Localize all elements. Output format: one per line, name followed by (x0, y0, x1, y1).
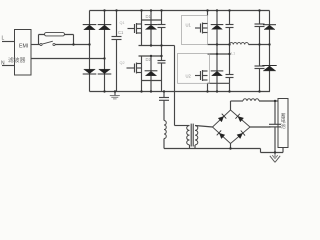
svg-text:EMI: EMI (19, 44, 28, 50)
svg-text:C1: C1 (118, 30, 124, 35)
svg-text:电: 电 (281, 118, 286, 125)
svg-text:Q1: Q1 (120, 21, 125, 25)
svg-text:D1: D1 (146, 14, 152, 19)
svg-text:U2: U2 (186, 74, 192, 79)
svg-text:蓄: 蓄 (281, 112, 286, 119)
svg-text:N: N (1, 61, 5, 67)
svg-text:U1: U1 (186, 23, 192, 28)
svg-text:滤波器: 滤波器 (8, 56, 26, 64)
svg-text:池: 池 (281, 123, 286, 130)
svg-text:L1: L1 (231, 52, 235, 56)
svg-text:Q2: Q2 (120, 61, 125, 65)
svg-text:D2: D2 (146, 57, 152, 62)
svg-text:L: L (2, 36, 5, 42)
